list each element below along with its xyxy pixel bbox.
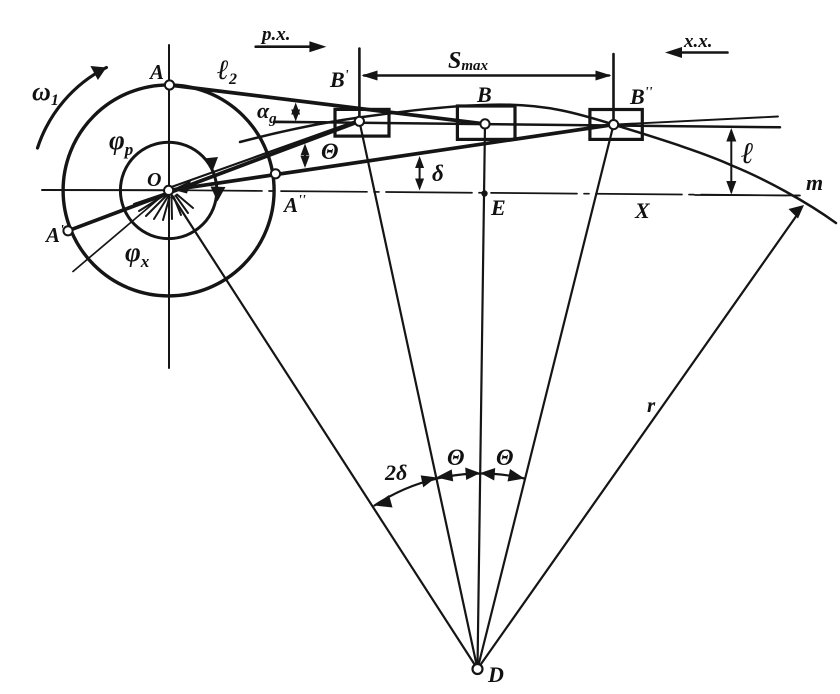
slider block B <box>457 106 515 139</box>
wire A'-O-B' <box>68 121 359 231</box>
svg-text:2δ: 2δ <box>384 460 407 485</box>
wire B''-right <box>614 117 778 125</box>
wire D-B'' <box>478 125 614 669</box>
wire D-B' <box>359 121 477 669</box>
svg-text:δ: δ <box>432 161 444 186</box>
svg-text:ℓ: ℓ <box>741 137 754 170</box>
svg-text:B: B <box>476 82 492 107</box>
phi arc arrowhead right <box>211 187 226 202</box>
x.x. arrow <box>678 51 728 54</box>
node O <box>164 186 173 195</box>
p.x. arrow <box>256 45 313 48</box>
svg-text:E: E <box>490 195 506 220</box>
E point <box>481 190 487 196</box>
vertical centerline through O <box>168 45 170 368</box>
svg-text:Θ: Θ <box>321 139 339 164</box>
svg-text:Θ: Θ <box>496 445 514 470</box>
dimension Smax <box>364 74 609 76</box>
arrowhead at O <box>172 181 191 194</box>
ground hatching at O <box>134 194 193 221</box>
node A' <box>63 226 72 235</box>
crank circle <box>63 85 274 296</box>
svg-text:m: m <box>806 170 823 195</box>
delta angle arrow <box>419 160 421 188</box>
theta angle arrow near B' <box>304 148 306 165</box>
omega1 rotation arc <box>38 68 107 149</box>
alpha_g reference line <box>274 121 325 123</box>
slider block B' <box>335 109 389 136</box>
phi arc arrowhead upper <box>204 157 219 172</box>
svg-text:r: r <box>647 393 656 417</box>
svg-text:p.x.: p.x. <box>260 24 291 45</box>
alpha_g angle arrow <box>295 106 297 118</box>
svg-text:D: D <box>487 662 504 687</box>
node A <box>165 80 174 89</box>
node D <box>473 664 483 674</box>
wire D-m radius r <box>478 215 798 669</box>
svg-text:x.x.: x.x. <box>683 31 713 52</box>
horizontal centerline left of O <box>42 189 176 191</box>
phi circle (inner) <box>120 142 216 238</box>
omega1 arrowhead <box>90 66 106 80</box>
node B'' <box>609 120 618 129</box>
wire O lower-left radius <box>73 190 169 271</box>
extension line at B'' <box>612 54 615 124</box>
svg-text:X: X <box>634 198 651 223</box>
node B' <box>355 117 364 126</box>
wire D-O <box>169 190 478 669</box>
wire D-B <box>478 124 486 669</box>
dimension l (right) <box>730 131 732 192</box>
horizontal dash-dot centerline O to right <box>176 190 800 195</box>
angle arc at D <box>375 474 525 506</box>
wire O-A''-B'' <box>169 125 614 191</box>
wire O-B' <box>169 120 360 188</box>
guide line through sliders <box>274 122 780 128</box>
svg-text:A: A <box>148 60 164 84</box>
extension line at B' <box>358 49 361 122</box>
node A'' <box>271 169 280 178</box>
arc path m of slider <box>240 105 836 223</box>
wire coupler A-B <box>170 85 486 124</box>
slider block B'' <box>590 110 642 140</box>
svg-text:Θ: Θ <box>447 445 465 470</box>
node B <box>480 119 489 128</box>
svg-text:O: O <box>147 169 161 191</box>
